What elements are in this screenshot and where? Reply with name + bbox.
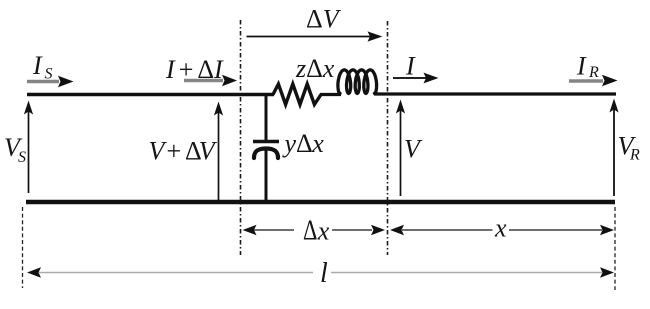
svg-text:V: V — [404, 135, 423, 164]
current arrow I — [393, 73, 439, 84]
dashed section boundary line left — [240, 20, 242, 255]
svg-text:x: x — [311, 129, 324, 158]
label I_R — [576, 52, 599, 82]
svg-text:+: + — [179, 55, 194, 84]
dashed extension line left end of line — [22, 207, 24, 288]
svg-text:z: z — [295, 54, 306, 83]
svg-text:R: R — [629, 147, 640, 164]
label l — [320, 258, 328, 289]
wire between resistor and inductor — [320, 93, 341, 96]
label delta-V — [306, 5, 342, 34]
svg-text:I: I — [32, 51, 43, 80]
svg-text:V: V — [323, 5, 342, 34]
svg-text:Δ: Δ — [306, 5, 323, 34]
label I — [405, 52, 416, 81]
voltage arrow V_R — [609, 99, 618, 197]
svg-text:I: I — [576, 52, 587, 81]
svg-text:S: S — [18, 149, 26, 166]
bottom conductor wire — [26, 200, 615, 205]
label y delta-x — [282, 129, 325, 158]
svg-text:Δ: Δ — [296, 129, 313, 158]
svg-text:S: S — [45, 66, 53, 83]
current arrow I_S — [27, 76, 74, 87]
label delta-x — [303, 215, 330, 246]
svg-text:I: I — [165, 55, 176, 84]
dimension arrow x — [390, 225, 614, 235]
top conductor wire right segment — [374, 92, 616, 95]
current arrow I + dI — [184, 75, 237, 86]
svg-text:x: x — [494, 214, 507, 243]
svg-text:l: l — [320, 258, 328, 289]
dimension arrow l (total line length) — [27, 267, 614, 277]
capacitor y (shunt admittance) top plate — [253, 140, 279, 143]
label I + delta-I — [165, 55, 224, 84]
label z delta-x — [295, 54, 335, 83]
svg-text:x: x — [317, 217, 330, 246]
label V_S — [4, 133, 26, 166]
svg-text:+: + — [167, 137, 182, 166]
current arrow I_R — [569, 75, 618, 86]
svg-text:V: V — [199, 137, 218, 166]
label V — [404, 135, 423, 164]
svg-text:Δ: Δ — [197, 55, 214, 84]
svg-text:x: x — [322, 54, 335, 83]
svg-text:Δ: Δ — [306, 54, 323, 83]
dashed extension line right end of line — [614, 207, 616, 290]
wire from capacitor to bottom conductor — [265, 150, 268, 200]
voltage arrow V_S — [24, 101, 33, 194]
top conductor wire left segment — [27, 93, 274, 96]
svg-text:V: V — [149, 137, 168, 166]
label I_S — [32, 51, 53, 83]
node junction at top of shunt branch — [265, 93, 268, 141]
resistor z (series impedance, zigzag) — [273, 84, 321, 105]
inductor z (series impedance, coil) — [338, 70, 377, 94]
svg-text:Δ: Δ — [303, 215, 317, 246]
label V_R — [618, 132, 641, 164]
svg-text:R: R — [588, 64, 599, 81]
delta-V arrow across section — [247, 31, 383, 41]
svg-text:I: I — [213, 55, 224, 84]
svg-text:y: y — [282, 129, 297, 158]
capacitor y (shunt admittance) curved bottom plate — [254, 149, 278, 159]
voltage arrow V — [396, 100, 405, 197]
dashed section boundary line right — [387, 21, 389, 255]
dimension arrow delta-x — [243, 225, 386, 235]
label V + delta-V — [149, 137, 218, 166]
voltage arrow V + dV — [214, 102, 223, 201]
svg-text:I: I — [405, 52, 416, 81]
label x — [494, 214, 507, 243]
